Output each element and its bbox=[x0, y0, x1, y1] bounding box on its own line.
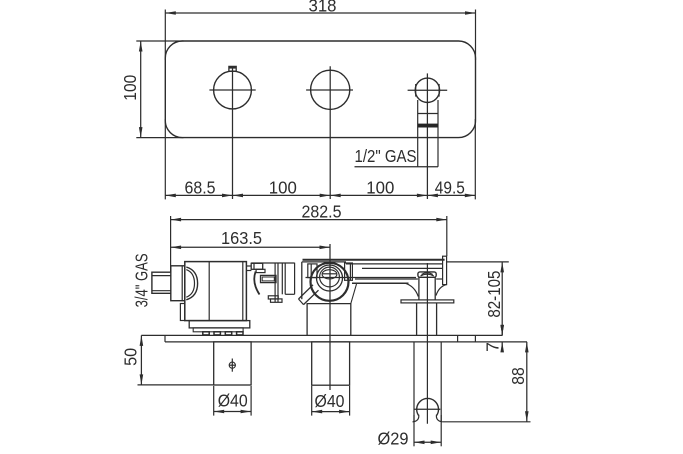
dim 318 right extension bbox=[475, 10, 477, 61]
dim 88 vertical bbox=[526, 342, 528, 422]
body internal line bbox=[208, 262, 210, 321]
outlet tube below plate right bbox=[440, 342, 442, 422]
svg-text:Ø40: Ø40 bbox=[218, 391, 248, 411]
K3 vertical centerline bbox=[426, 73, 428, 199]
dim 50 vertical bbox=[140, 335, 142, 385]
dim 82-105 vertical bbox=[501, 262, 503, 336]
wall plate tick 2 bbox=[474, 335, 476, 342]
cartridge v centerline bbox=[329, 244, 331, 390]
inlet stub 3/4 bbox=[152, 272, 171, 293]
dim 7 arrows bbox=[501, 327, 503, 335]
body bottom step bbox=[193, 328, 243, 332]
K1 horizontal centerline bbox=[209, 89, 255, 91]
wall plate tick 1 bbox=[457, 335, 459, 342]
dim 100 top extension bbox=[136, 40, 183, 42]
dim 82-105 top extension bbox=[447, 261, 509, 263]
outlet tube step bbox=[418, 113, 438, 115]
body side bracket bbox=[180, 304, 184, 321]
svg-text:3/4" GAS: 3/4" GAS bbox=[131, 253, 151, 307]
main valve body bbox=[185, 262, 247, 321]
svg-text:318: 318 bbox=[309, 0, 337, 15]
svg-text:163.5: 163.5 bbox=[221, 228, 262, 248]
hose hook arc bbox=[417, 398, 439, 415]
bottom chained dim line seg 68.5 bbox=[165, 194, 232, 196]
bar line 3 bbox=[362, 267, 443, 269]
cartridge ring bbox=[317, 265, 343, 291]
thread tooth 4 bbox=[237, 332, 243, 335]
thread tooth 1 bbox=[203, 332, 209, 335]
dim O40 #1 line bbox=[214, 411, 251, 413]
neck right diagonal bbox=[351, 284, 357, 304]
knob circle K1 bbox=[214, 71, 252, 109]
clamp left of cartridge bbox=[308, 264, 317, 278]
svg-text:50: 50 bbox=[121, 348, 141, 366]
svg-text:100: 100 bbox=[120, 74, 140, 100]
pipe lower left edge bbox=[416, 303, 418, 336]
K3 side flat right bbox=[438, 84, 440, 97]
K2 vertical centerline bbox=[329, 66, 331, 199]
escutcheon flange bbox=[401, 300, 454, 303]
hook h centerline bbox=[414, 408, 440, 410]
dim O40 #2 line bbox=[312, 411, 350, 413]
dim 318 line bbox=[165, 12, 475, 14]
seg 49.5 bbox=[427, 194, 475, 196]
collar opening arc 2 bbox=[421, 274, 434, 276]
bar line 4 right seg bbox=[436, 278, 442, 280]
shower pipe collar bbox=[418, 272, 436, 277]
hook right foot bbox=[436, 415, 442, 422]
bracket line v4 bbox=[284, 263, 286, 294]
dim O40 #2 extensions bbox=[311, 386, 313, 416]
screw v line bbox=[231, 359, 233, 372]
dim 100 left vertical bbox=[140, 41, 142, 138]
thread tooth 2 bbox=[214, 332, 220, 335]
bar line 2 bbox=[346, 263, 443, 265]
cartridge housing left wall bbox=[301, 262, 303, 299]
ext 282.5 left bbox=[170, 216, 172, 272]
dim 282.5 line bbox=[171, 219, 447, 221]
screw h line bbox=[229, 364, 236, 366]
body bottom flange bbox=[189, 321, 250, 328]
neck right edge bbox=[350, 304, 352, 336]
dim 163.5 line bbox=[171, 246, 330, 248]
cartridge inner ellipse bbox=[322, 270, 337, 279]
svg-text:282.5: 282.5 bbox=[302, 202, 342, 222]
K1 top tab cap bbox=[230, 67, 236, 69]
body left cone inner bbox=[186, 270, 194, 298]
diagonal stub cap bbox=[299, 299, 304, 305]
inner ellipse line bbox=[322, 273, 336, 275]
cartridge h centerline bbox=[306, 277, 417, 279]
diverter circle K3 bbox=[415, 78, 439, 102]
svg-text:100: 100 bbox=[366, 177, 394, 197]
bracket line v3 bbox=[281, 263, 283, 294]
housing outer wall bbox=[294, 263, 296, 295]
K1 vertical centerline bbox=[232, 66, 234, 199]
ext 282.5 right bbox=[446, 216, 448, 256]
K3 horizontal centerline bbox=[408, 89, 448, 91]
dim O29 extensions bbox=[413, 415, 415, 446]
block A flange bbox=[256, 269, 265, 272]
outlet tube below plate left bbox=[413, 342, 415, 422]
diagonal stub upper line bbox=[299, 285, 314, 299]
screw circle bbox=[229, 362, 235, 368]
wall plate top line bbox=[141, 334, 502, 336]
dim 318 left extension bbox=[164, 10, 166, 61]
leader line 1/2 GAS bbox=[355, 166, 439, 168]
check valve lobe bbox=[254, 272, 259, 295]
knob circle K2 bbox=[311, 70, 350, 109]
mid link line top bbox=[246, 265, 251, 267]
body left cone outer bbox=[186, 267, 197, 300]
pipe centerline bbox=[426, 263, 428, 424]
web left bbox=[405, 283, 418, 296]
adapter inner edge bbox=[181, 266, 183, 301]
bracket feet bbox=[268, 296, 278, 299]
mid cluster block A bbox=[251, 263, 263, 269]
svg-text:49.5: 49.5 bbox=[435, 177, 465, 197]
clamp right of cartridge bbox=[345, 263, 353, 280]
block A inner line bbox=[253, 263, 255, 269]
bracket line v2 bbox=[277, 263, 279, 302]
cartridge outer circle bbox=[311, 263, 349, 301]
svg-text:Ø29: Ø29 bbox=[378, 429, 409, 449]
hook left foot bbox=[413, 415, 419, 422]
outlet tube right edge bbox=[437, 100, 439, 167]
adapter block bbox=[171, 266, 185, 301]
dim 100 bottom extension bbox=[136, 137, 183, 139]
cartridge housing top line bbox=[302, 261, 346, 263]
pipe upper right edge bbox=[434, 277, 436, 300]
dim O40 #1 extensions bbox=[213, 386, 215, 416]
bar end cap bbox=[443, 256, 447, 284]
seg 100 bbox=[233, 194, 331, 196]
ext right edge bbox=[474, 119, 476, 199]
inlet stub inner bottom line bbox=[152, 290, 171, 292]
ext left edge bbox=[164, 119, 166, 199]
bar bottom edge bbox=[352, 282, 409, 284]
mid link line bottom bbox=[246, 270, 251, 272]
mid cluster top line bbox=[251, 262, 294, 264]
svg-text:68.5: 68.5 bbox=[185, 177, 216, 197]
outlet tube dark band bbox=[418, 124, 438, 128]
seg 100b bbox=[330, 194, 427, 196]
dim 88 bottom extension bbox=[443, 421, 531, 423]
bracket line v1 bbox=[274, 263, 276, 302]
neck top line bbox=[307, 303, 352, 305]
rough body 1 bbox=[214, 342, 251, 385]
pipe lower right edge bbox=[436, 303, 438, 336]
K2 horizontal centerline bbox=[306, 89, 353, 91]
bracket base bbox=[271, 299, 283, 302]
slot inner bbox=[262, 277, 274, 281]
neck left edge bbox=[306, 304, 308, 336]
rough body 2 bbox=[312, 342, 350, 385]
bar line 4 bbox=[355, 278, 418, 280]
svg-text:88: 88 bbox=[508, 367, 528, 385]
body internal line 2 bbox=[242, 262, 244, 321]
collar opening arc bbox=[422, 273, 433, 275]
svg-text:7: 7 bbox=[482, 342, 502, 352]
svg-text:100: 100 bbox=[269, 177, 297, 197]
slot block bbox=[261, 275, 277, 282]
dim O29 line bbox=[414, 441, 441, 443]
pipe upper left edge bbox=[418, 277, 420, 300]
bar top edge bbox=[303, 259, 445, 261]
diagonal stub lower line bbox=[304, 290, 319, 304]
svg-text:Ø40: Ø40 bbox=[315, 391, 345, 411]
svg-text:1/2" GAS: 1/2" GAS bbox=[355, 146, 417, 166]
K1 top tab bbox=[229, 66, 236, 71]
K3 side flat left bbox=[415, 84, 417, 97]
dim 50 bottom extension bbox=[138, 384, 214, 386]
inlet stub inner top line bbox=[152, 275, 171, 277]
clamp left inner bbox=[310, 264, 312, 278]
outlet tube left edge bbox=[417, 100, 419, 167]
svg-text:82-105: 82-105 bbox=[484, 271, 504, 318]
cartridge mid circle bbox=[320, 267, 340, 287]
wall plate bottom line bbox=[165, 341, 527, 343]
web right bbox=[436, 285, 447, 296]
housing bottom line bbox=[285, 293, 294, 295]
faceplate rounded rect bbox=[165, 41, 475, 138]
clamp right inner bbox=[349, 263, 351, 280]
wall plate left edge bbox=[164, 335, 166, 342]
thread tooth 3 bbox=[225, 332, 231, 335]
